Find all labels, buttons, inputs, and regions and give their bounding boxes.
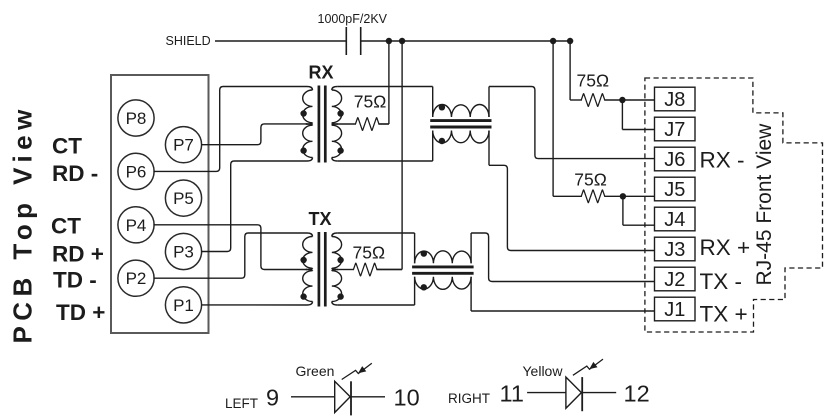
svg-text:J3: J3: [664, 239, 685, 261]
svg-text:1000pF/2KV: 1000pF/2KV: [318, 12, 388, 26]
svg-text:TX +: TX +: [700, 302, 748, 327]
pin P2: [118, 260, 154, 296]
svg-text:SHIELD: SHIELD: [166, 34, 211, 48]
wire TX secondary top to choke: [337, 232, 414, 234]
svg-text:J2: J2: [664, 269, 685, 291]
LED D2 yellow triangle: [566, 377, 582, 408]
transformer RX T1 secondary winding: [332, 87, 342, 162]
transformer RX T1 label: [309, 63, 334, 83]
wire P1 to TX primary bottom: [201, 304, 307, 306]
label Green: [296, 363, 335, 379]
label pin 10: [394, 385, 420, 411]
junction dot shield-RX termination: [386, 38, 392, 44]
choke L1 (RX) bottom-left lead: [432, 131, 434, 162]
choke L2 (TX) core: [412, 267, 474, 273]
transformer RX T1 primary winding: [303, 87, 313, 162]
wire choke L2 to J1 (TX +): [471, 310, 654, 312]
wire P6 to RX primary top: [153, 87, 307, 172]
wire P7 to RX primary center tap: [201, 124, 307, 145]
junction dot R3-J8: [619, 97, 625, 103]
label CT (TX center tap): [51, 213, 81, 238]
wire shield to J8 75ohm resistor: [570, 41, 582, 100]
resistor R3 75ohm (J8/J7 termination): [581, 94, 622, 107]
svg-text:RD +: RD +: [52, 242, 104, 267]
choke L2 (TX) bottom-left lead: [414, 277, 416, 305]
svg-text:TD -: TD -: [53, 268, 97, 293]
transformer TX T2 secondary winding: [332, 233, 342, 305]
svg-text:TD +: TD +: [56, 300, 105, 325]
RJ-45 contact J7: [655, 117, 696, 141]
svg-text:TX -: TX -: [700, 269, 743, 294]
wire shield right segment: [361, 40, 571, 42]
junction dot shield-TX termination: [399, 38, 405, 44]
junction dot shield-J8 termination: [567, 38, 573, 44]
choke L1 (RX) bottom-right lead: [488, 131, 490, 166]
svg-text:J8: J8: [664, 89, 685, 111]
transformer TX T2 phasing dots: [300, 257, 343, 300]
label TX + (J1): [700, 302, 748, 327]
svg-text:75Ω: 75Ω: [354, 92, 387, 112]
svg-text:P2: P2: [126, 269, 147, 288]
label RD -: [52, 161, 98, 186]
wire R4 to J4: [623, 196, 655, 225]
RJ-45 contact J1: [655, 297, 696, 321]
wire P3 to RX primary bottom: [201, 161, 307, 252]
label LEFT: [225, 396, 258, 411]
transformer TX T2 core: [319, 232, 325, 307]
net label SHIELD: [166, 34, 211, 48]
LED D2 yellow anode wire: [527, 392, 566, 394]
svg-text:J6: J6: [664, 149, 685, 171]
RJ-45 contact J2: [655, 267, 696, 291]
transformer TX T2 primary winding: [303, 233, 313, 305]
RJ-45 contact J6: [655, 147, 696, 171]
wire TX secondary bottom to choke: [337, 304, 414, 306]
label R1 75ohm: [354, 92, 387, 112]
choke L1 (RX) top-right lead: [488, 87, 490, 118]
svg-text:9: 9: [266, 385, 279, 411]
label RX - (J6): [700, 148, 745, 173]
svg-text:11: 11: [500, 381, 524, 407]
capacitor C1 1000pF/2KV: [346, 27, 360, 55]
svg-text:RX: RX: [309, 63, 334, 83]
label RD +: [52, 242, 104, 267]
label pin 9: [266, 385, 279, 411]
wire choke L1 to J6 (RX -): [489, 87, 655, 159]
LED D2 yellow cathode wire: [582, 392, 616, 394]
choke L2 (TX) phasing dots: [421, 250, 427, 290]
label R4 75ohm: [574, 170, 607, 190]
pin P5: [165, 180, 201, 216]
svg-text:P6: P6: [126, 162, 147, 181]
resistor R4 75ohm (J5/J4 termination): [581, 190, 623, 203]
choke L2 (TX) top winding: [415, 251, 472, 264]
label RIGHT: [448, 391, 490, 406]
LED D1 green cathode bar: [350, 381, 352, 415]
wire shield to RX 75ohm resistor: [379, 41, 389, 124]
label R3 75ohm: [577, 71, 610, 91]
LED D2 yellow emission arrow: [573, 359, 603, 375]
label RJ-45 Front View (rotated): [753, 123, 776, 286]
svg-text:75Ω: 75Ω: [577, 71, 610, 91]
RJ-45 jack dashed outline: [645, 78, 823, 332]
pin P1: [165, 287, 201, 323]
LED D1 green triangle: [335, 381, 351, 412]
choke L1 (RX) core: [430, 121, 491, 127]
PCB connector box outline: [111, 75, 209, 333]
pin P6: [118, 153, 154, 189]
pin P7: [165, 127, 201, 163]
svg-text:RJ-45 Front View: RJ-45 Front View: [753, 123, 776, 286]
label R2 75ohm: [353, 243, 386, 263]
wire RX secondary bottom to choke: [337, 160, 432, 162]
pin P8: [118, 100, 154, 136]
resistor R2 75ohm (TX center tap): [338, 263, 402, 276]
resistor R1 75ohm (RX center tap): [338, 118, 389, 131]
svg-text:12: 12: [624, 381, 650, 407]
RJ-45 contact J5: [655, 177, 696, 201]
RJ-45 contact J4: [655, 207, 696, 231]
transformer TX T2 label: [309, 209, 332, 229]
label TD +: [56, 300, 105, 325]
label pin 12: [624, 381, 650, 407]
LED D1 green anode wire: [291, 396, 335, 398]
junction dot R4-J5: [620, 193, 626, 199]
wire shield to J5 75ohm resistor: [553, 41, 582, 196]
label RX + (J3): [700, 235, 751, 260]
svg-text:10: 10: [394, 385, 420, 411]
svg-text:P5: P5: [173, 189, 194, 208]
wire R3 to J7: [622, 100, 654, 130]
label pin 11: [500, 381, 524, 407]
wire R4 to J5: [623, 195, 655, 197]
label Yellow: [523, 363, 564, 379]
transformer RX T1 core: [319, 86, 325, 163]
svg-text:J4: J4: [664, 209, 685, 231]
pin P4: [118, 207, 154, 243]
svg-text:P8: P8: [126, 109, 147, 128]
wire P2 to TX primary top: [153, 233, 307, 278]
svg-text:Green: Green: [296, 363, 335, 379]
RJ-45 contact J3: [655, 237, 696, 261]
svg-text:RD -: RD -: [52, 161, 98, 186]
svg-text:TX: TX: [309, 209, 332, 229]
junction dot shield-J5 termination: [550, 38, 556, 44]
choke L1 (RX) phasing dots: [439, 104, 445, 144]
RJ-45 contact J8: [655, 87, 696, 111]
svg-text:P4: P4: [126, 216, 147, 235]
choke L1 (RX) top winding: [433, 104, 489, 117]
svg-text:P3: P3: [173, 243, 194, 262]
choke L1 (RX) bottom winding: [433, 131, 489, 144]
svg-text:J1: J1: [664, 299, 685, 321]
svg-text:CT: CT: [51, 213, 81, 238]
svg-text:75Ω: 75Ω: [353, 243, 386, 263]
wire R3 to J8: [622, 99, 654, 101]
svg-text:Yellow: Yellow: [523, 363, 564, 379]
choke L2 (TX) bottom winding: [415, 277, 472, 290]
wire shield left segment: [215, 40, 346, 42]
svg-text:RX +: RX +: [700, 235, 751, 260]
label TX - (J2): [700, 269, 743, 294]
label CT (RX center tap): [52, 134, 82, 159]
svg-text:J5: J5: [664, 179, 685, 201]
label TD -: [53, 268, 97, 293]
svg-text:P1: P1: [173, 296, 194, 315]
svg-text:LEFT: LEFT: [225, 396, 258, 411]
svg-text:75Ω: 75Ω: [574, 170, 607, 190]
svg-text:PCB Top View: PCB Top View: [8, 104, 38, 343]
choke L2 (TX) top-left lead: [414, 233, 416, 263]
label PCB Top View (rotated): [8, 104, 38, 343]
svg-text:RIGHT: RIGHT: [448, 391, 490, 406]
LED D1 green cathode wire: [351, 396, 385, 398]
wire shield to TX 75ohm resistor: [377, 41, 402, 269]
choke L1 (RX) top-left lead: [432, 87, 434, 118]
choke L2 (TX) top-right lead: [470, 233, 472, 263]
svg-text:RX -: RX -: [700, 148, 745, 173]
choke L2 (TX) bottom-right lead: [470, 277, 472, 311]
pin P3: [165, 233, 201, 269]
capacitor C1 value label 1000pF/2KV: [318, 12, 388, 26]
LED D1 green emission arrow: [342, 363, 372, 379]
wire choke L1 to J3 (RX +): [489, 165, 655, 250]
svg-text:J7: J7: [664, 119, 685, 141]
LED D2 yellow cathode bar: [581, 377, 583, 411]
wire RX secondary top to choke: [337, 86, 432, 88]
wire choke L2 to J2 (TX -): [471, 233, 654, 282]
transformer RX T1 phasing dots: [300, 110, 343, 154]
svg-text:P7: P7: [173, 136, 194, 155]
svg-text:CT: CT: [52, 134, 82, 159]
wire P4 to TX primary center tap: [153, 225, 307, 270]
